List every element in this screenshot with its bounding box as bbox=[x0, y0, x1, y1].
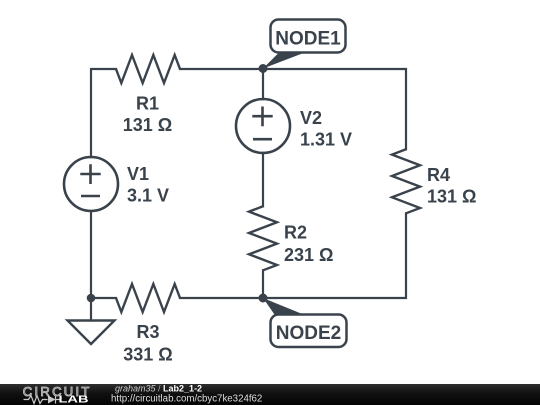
svg-text:V1: V1 bbox=[127, 164, 149, 184]
svg-text:http://circuitlab.com/cbyc7ke3: http://circuitlab.com/cbyc7ke324f62 bbox=[111, 393, 262, 404]
svg-text:1.31 V: 1.31 V bbox=[300, 130, 352, 150]
svg-text:331 Ω: 331 Ω bbox=[123, 345, 172, 365]
svg-text:V2: V2 bbox=[300, 108, 322, 128]
svg-text:NODE1: NODE1 bbox=[275, 28, 341, 49]
svg-text:R2: R2 bbox=[284, 223, 307, 243]
svg-text:graham35 / Lab2_1-2: graham35 / Lab2_1-2 bbox=[115, 384, 202, 394]
svg-text:231 Ω: 231 Ω bbox=[284, 245, 333, 265]
svg-text:R3: R3 bbox=[136, 322, 159, 342]
svg-text:131 Ω: 131 Ω bbox=[123, 115, 172, 135]
svg-text:LAB: LAB bbox=[59, 395, 89, 405]
svg-text:R4: R4 bbox=[427, 165, 450, 185]
svg-text:R1: R1 bbox=[136, 94, 159, 114]
svg-text:NODE2: NODE2 bbox=[276, 323, 341, 344]
svg-text:131 Ω: 131 Ω bbox=[427, 187, 476, 207]
svg-text:3.1 V: 3.1 V bbox=[127, 186, 169, 206]
